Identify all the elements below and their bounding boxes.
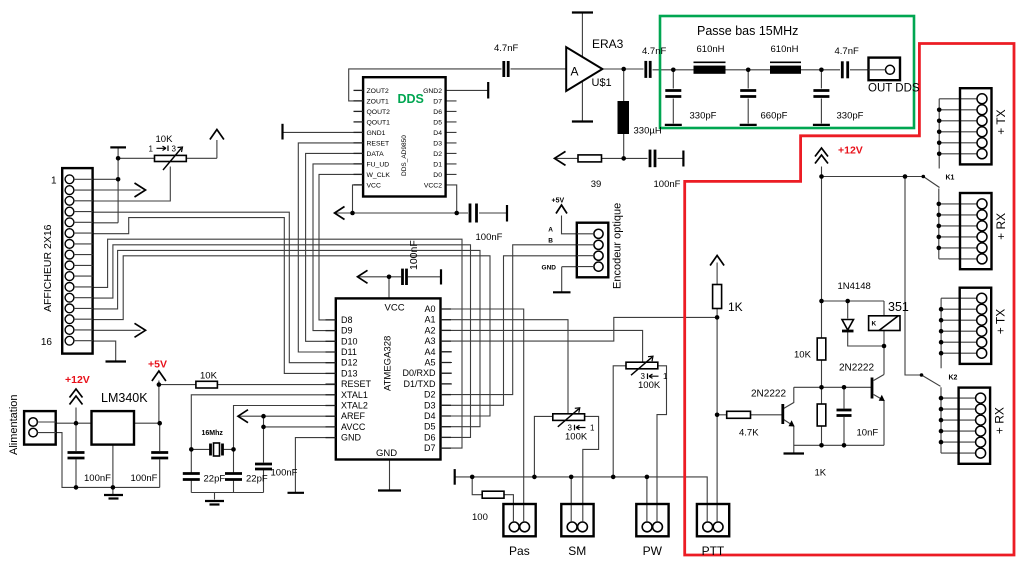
svg-text:VCC: VCC — [385, 303, 405, 314]
svg-text:XTAL2: XTAL2 — [341, 401, 368, 411]
svg-text:GND: GND — [341, 433, 362, 443]
svg-text:D7: D7 — [433, 98, 442, 105]
svg-text:A4: A4 — [424, 347, 435, 357]
svg-text:100nF: 100nF — [271, 468, 298, 479]
svg-text:1: 1 — [590, 424, 595, 433]
svg-text:ERA3: ERA3 — [592, 37, 624, 51]
svg-text:A: A — [548, 227, 553, 234]
svg-text:A1: A1 — [424, 315, 435, 325]
svg-text:K1: K1 — [946, 175, 955, 182]
svg-text:K: K — [872, 321, 877, 328]
svg-text:AREF: AREF — [341, 411, 366, 421]
svg-text:610nH: 610nH — [771, 44, 799, 55]
svg-text:1K: 1K — [728, 300, 743, 314]
svg-text:Passe bas 15MHz: Passe bas 15MHz — [697, 24, 798, 38]
svg-text:D7: D7 — [424, 443, 436, 453]
svg-text:A: A — [571, 65, 579, 79]
svg-text:+ RX: + RX — [993, 407, 1007, 434]
svg-text:+ TX: + TX — [994, 309, 1008, 334]
svg-text:100: 100 — [472, 512, 488, 523]
svg-text:2N2222: 2N2222 — [751, 389, 786, 400]
svg-text:10K: 10K — [156, 134, 174, 145]
svg-text:A2: A2 — [424, 325, 435, 335]
svg-text:RESET: RESET — [367, 140, 390, 147]
svg-text:D0/RXD: D0/RXD — [402, 368, 436, 378]
svg-text:GND1: GND1 — [367, 130, 386, 137]
svg-text:39: 39 — [591, 179, 602, 190]
svg-text:D6: D6 — [433, 109, 442, 116]
svg-text:D4: D4 — [433, 130, 442, 137]
svg-text:D2: D2 — [424, 390, 436, 400]
svg-text:+5V: +5V — [148, 359, 167, 371]
svg-text:1: 1 — [51, 176, 57, 187]
svg-text:ZOUT1: ZOUT1 — [367, 98, 389, 105]
svg-text:Encodeur optique: Encodeur optique — [612, 203, 624, 289]
svg-text:FU_UD: FU_UD — [367, 161, 390, 168]
svg-text:4.7nF: 4.7nF — [642, 46, 666, 57]
svg-text:AVCC: AVCC — [341, 422, 366, 432]
svg-text:VCC: VCC — [367, 182, 381, 189]
svg-text:10nF: 10nF — [857, 428, 879, 439]
svg-text:Pas: Pas — [509, 544, 530, 558]
svg-text:330pF: 330pF — [690, 111, 717, 122]
svg-text:GND2: GND2 — [423, 88, 442, 95]
svg-text:XTAL1: XTAL1 — [341, 390, 368, 400]
svg-text:D3: D3 — [433, 140, 442, 147]
svg-text:AFFICHEUR 2X16: AFFICHEUR 2X16 — [42, 224, 54, 312]
svg-text:10K: 10K — [794, 350, 812, 361]
svg-text:K2: K2 — [949, 375, 958, 382]
svg-text:D4: D4 — [424, 411, 436, 421]
svg-text:660pF: 660pF — [761, 111, 788, 122]
svg-text:4.7nF: 4.7nF — [494, 43, 518, 54]
svg-text:DDS_AD9850: DDS_AD9850 — [401, 135, 408, 176]
svg-text:D8: D8 — [341, 315, 353, 325]
svg-text:U$1: U$1 — [592, 77, 612, 89]
svg-text:ZOUT2: ZOUT2 — [367, 88, 389, 95]
svg-text:+12V: +12V — [838, 145, 863, 157]
svg-text:QOUT1: QOUT1 — [367, 119, 391, 126]
svg-text:1: 1 — [149, 145, 154, 154]
svg-text:GND: GND — [376, 448, 397, 459]
svg-text:Alimentation: Alimentation — [8, 394, 20, 455]
svg-text:PTT: PTT — [702, 544, 725, 558]
svg-text:2N2222: 2N2222 — [839, 363, 874, 374]
svg-text:100nF: 100nF — [476, 232, 503, 243]
svg-text:D2: D2 — [433, 151, 442, 158]
svg-text:D3: D3 — [424, 400, 436, 410]
svg-text:B: B — [548, 238, 553, 245]
svg-text:16: 16 — [41, 337, 53, 348]
svg-text:610nH: 610nH — [697, 44, 725, 55]
svg-text:+12V: +12V — [65, 374, 90, 386]
svg-text:4.7K: 4.7K — [739, 428, 759, 439]
svg-text:330µH: 330µH — [634, 126, 662, 137]
svg-text:D5: D5 — [424, 422, 436, 432]
svg-text:D13: D13 — [341, 368, 358, 378]
svg-text:100nF: 100nF — [408, 240, 420, 270]
svg-text:100nF: 100nF — [84, 473, 111, 484]
svg-text:ATMEGA328: ATMEGA328 — [383, 336, 394, 391]
svg-text:4.7nF: 4.7nF — [835, 46, 859, 57]
svg-text:A5: A5 — [424, 358, 435, 368]
svg-text:OUT DDS: OUT DDS — [868, 83, 920, 95]
svg-text:W_CLK: W_CLK — [367, 172, 391, 179]
svg-text:1N4148: 1N4148 — [838, 281, 871, 292]
svg-text:3: 3 — [172, 145, 177, 154]
svg-text:+5V: +5V — [552, 198, 565, 205]
svg-text:1K: 1K — [815, 467, 827, 478]
svg-text:RESET: RESET — [341, 379, 372, 389]
svg-text:D12: D12 — [341, 358, 358, 368]
svg-text:100nF: 100nF — [654, 179, 681, 190]
svg-text:+ RX: + RX — [994, 213, 1008, 240]
svg-text:+ TX: + TX — [994, 109, 1008, 134]
svg-text:GND: GND — [542, 265, 557, 272]
svg-text:DATA: DATA — [367, 151, 385, 158]
svg-text:PW: PW — [643, 544, 663, 558]
svg-text:D9: D9 — [341, 326, 353, 336]
svg-text:D0: D0 — [433, 172, 442, 179]
svg-text:LM340K: LM340K — [101, 391, 148, 405]
svg-text:A0: A0 — [424, 304, 435, 314]
svg-text:D6: D6 — [424, 432, 436, 442]
svg-text:D11: D11 — [341, 347, 357, 357]
svg-text:D1: D1 — [433, 161, 442, 168]
svg-text:100K: 100K — [565, 432, 588, 443]
svg-text:VCC2: VCC2 — [424, 182, 442, 189]
svg-text:100nF: 100nF — [131, 473, 158, 484]
svg-text:DDS: DDS — [398, 92, 424, 106]
svg-text:QOUT2: QOUT2 — [367, 109, 391, 116]
svg-text:16Mhz: 16Mhz — [202, 430, 224, 437]
svg-text:D10: D10 — [341, 336, 358, 346]
svg-text:100K: 100K — [638, 380, 661, 391]
svg-text:330pF: 330pF — [837, 111, 864, 122]
svg-text:10K: 10K — [200, 371, 218, 382]
svg-text:A3: A3 — [424, 336, 435, 346]
svg-text:22pF: 22pF — [204, 474, 226, 485]
svg-text:D5: D5 — [433, 119, 442, 126]
svg-text:351: 351 — [888, 300, 909, 314]
svg-text:D1/TXD: D1/TXD — [403, 379, 436, 389]
svg-text:1: 1 — [663, 372, 668, 381]
svg-text:SM: SM — [568, 544, 586, 558]
svg-text:22pF: 22pF — [246, 474, 268, 485]
